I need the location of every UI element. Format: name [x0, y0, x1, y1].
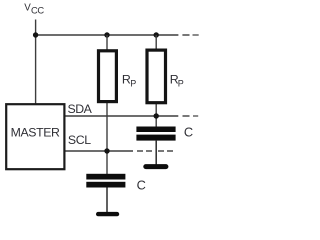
wire SCL line: [66, 150, 134, 152]
svg-text:MASTER: MASTER: [11, 125, 60, 139]
wire C2 ground lead: [106, 188, 108, 213]
node junction SCL RP1: [104, 148, 109, 153]
node junction SDA RP2: [154, 113, 159, 118]
svg-text:P: P: [178, 78, 184, 88]
label RP2: [170, 73, 184, 89]
wire RP1 top lead: [106, 35, 108, 50]
svg-text:SCL: SCL: [68, 133, 91, 147]
resistor RP2: [147, 50, 166, 103]
wire C1 ground lead: [155, 141, 157, 165]
node junction rail RP1: [104, 32, 109, 37]
wire SDA dashed continuation: [183, 115, 199, 117]
wire SDA line: [66, 115, 179, 117]
ground C2: [96, 212, 119, 216]
wire VCC rail: [36, 34, 179, 36]
power label VCC: [24, 2, 44, 15]
wire VCC vertical to MASTER: [35, 20, 37, 104]
wire VCC rail dashed continuation: [182, 34, 198, 36]
capacitor C2 bottom plate: [86, 182, 125, 188]
wire RP2 bottom lead to SDA and C1: [155, 103, 157, 127]
capacitor C1 top plate: [136, 127, 175, 133]
wire RP2 top lead: [155, 35, 157, 50]
MASTER block: [6, 104, 64, 169]
capacitor C1 bottom plate: [136, 135, 175, 141]
svg-text:C: C: [184, 125, 193, 140]
svg-text:SDA: SDA: [68, 102, 93, 116]
resistor RP1: [99, 51, 117, 102]
ground C1: [143, 164, 168, 169]
capacitor C2 top plate: [86, 174, 125, 180]
wire RP1 bottom lead crossing SDA down to SCL and C2: [106, 103, 108, 175]
label RP1: [122, 73, 136, 89]
node junction VCC corner: [33, 32, 38, 37]
wire SCL dashed continuation: [137, 150, 173, 152]
node junction rail RP2: [154, 32, 159, 37]
svg-text:P: P: [130, 78, 136, 88]
svg-text:CC: CC: [31, 5, 44, 16]
svg-text:C: C: [137, 178, 146, 193]
